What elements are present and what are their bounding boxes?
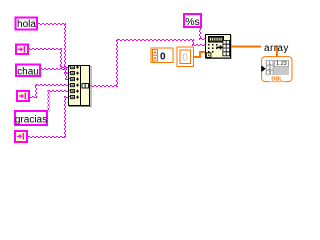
- svg-text:gracias: gracias: [15, 114, 47, 125]
- index cells: [267, 60, 274, 75]
- array constant element (empty, dimmed 0): [177, 47, 194, 67]
- array indicator label background: [261, 40, 292, 52]
- 6 input glyphs: [71, 66, 80, 99]
- svg-text:0: 0: [182, 53, 188, 64]
- output glyph: [82, 84, 88, 89]
- Concatenate Strings function: [69, 66, 92, 108]
- wire chau to concatenate input 3: [41, 68, 70, 80]
- element cell: [275, 61, 289, 68]
- end-of-line constant EOL1: [16, 45, 28, 55]
- wire hola to concatenate input 2: [37, 23, 70, 74]
- wire %s to format string input: [199, 27, 206, 40]
- indicator direction arrow: [261, 66, 265, 72]
- string constant %s: [184, 14, 201, 28]
- svg-text:1.23: 1.23: [276, 61, 287, 67]
- array grid: [223, 40, 230, 55]
- wire array type constant to node: [194, 51, 208, 58]
- string constant hola: [16, 18, 38, 31]
- wire EOL3 to concatenate input 6: [28, 96, 70, 138]
- svg-text:hola: hola: [17, 19, 36, 30]
- format box: [209, 37, 224, 43]
- arrow: [217, 45, 223, 50]
- svg-text:%s: %s: [185, 16, 200, 28]
- wire array output to indicator (vertical drop): [276, 46, 278, 58]
- end-of-line constant EOL3: [15, 131, 27, 142]
- array indicator terminal: [261, 57, 292, 83]
- svg-text:array: array: [264, 43, 289, 54]
- end-of-line constant EOL2: [17, 91, 29, 101]
- wire concatenated string to Spreadsheet String To Array: [90, 39, 206, 87]
- DBL type label: [270, 75, 285, 82]
- wire EOL2 to concatenate input 4: [30, 84, 70, 98]
- string constant gracias: [15, 111, 47, 125]
- wire array output to indicator (horizontal part): [230, 46, 278, 48]
- string constant chau: [16, 65, 40, 78]
- input wire stubs inside node: [69, 66, 71, 98]
- Spreadsheet String To Array function: [206, 35, 232, 60]
- dot grid: [208, 44, 218, 53]
- small square with dot: [206, 53, 211, 58]
- wire gracias to concatenate input 5: [48, 90, 71, 112]
- svg-text:chau: chau: [17, 67, 39, 78]
- svg-text:DBL: DBL: [271, 76, 283, 82]
- wire EOL1 to concatenate input 1: [29, 48, 70, 68]
- svg-text:0: 0: [160, 52, 166, 63]
- array constant index display: [151, 48, 173, 63]
